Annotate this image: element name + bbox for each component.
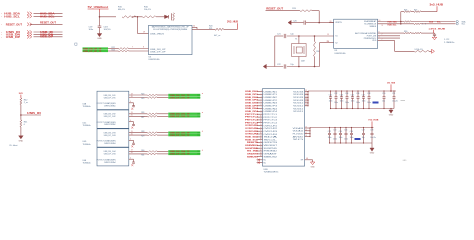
svg-text:R24: R24 bbox=[141, 93, 144, 95]
net flag USB_DN bbox=[1, 33, 63, 37]
node HUB_SCL bbox=[245, 139, 259, 141]
wire DP row bbox=[108, 48, 119, 54]
wire VBUS to U5A pin19 bbox=[138, 17, 149, 34]
capacitor C54 bbox=[339, 127, 343, 144]
svg-text:VDD11: VDD11 bbox=[293, 105, 303, 107]
wire DP ch1 bbox=[129, 96, 148, 98]
svg-text:5V_USBhost: 5V_USBhost bbox=[88, 5, 109, 9]
wire U5C pin L11 bbox=[257, 118, 263, 120]
svg-text:USB_DN_CH2: USB_DN_CH2 bbox=[104, 114, 116, 116]
svg-text:SDA: SDA bbox=[429, 20, 434, 23]
node USB_DP_CH1 green label bbox=[168, 96, 200, 99]
svg-text:U5: U5 bbox=[335, 50, 339, 52]
wire SCL row bbox=[378, 24, 414, 27]
capacitor C44 bbox=[345, 90, 349, 109]
svg-text:16V,5%: 16V,5% bbox=[104, 29, 111, 31]
svg-text:HUB_SDA: HUB_SDA bbox=[40, 12, 55, 15]
svg-text:5V0: 5V0 bbox=[19, 93, 24, 95]
node USB_DN_CH1 green label bbox=[168, 94, 200, 97]
svg-text:TP4: TP4 bbox=[197, 116, 200, 118]
svg-text:10u,25v: 10u,25v bbox=[392, 101, 398, 103]
resistor R24 bbox=[141, 93, 168, 95]
reference U4D text bbox=[83, 141, 91, 146]
svg-text:R30: R30 bbox=[141, 150, 144, 152]
svg-text:1V2_HUB: 1V2_HUB bbox=[368, 120, 379, 122]
wire cfg row4 bbox=[378, 39, 414, 52]
wire PORTCTL ch2 bbox=[129, 120, 135, 126]
svg-text:2_nc: 2_nc bbox=[24, 102, 28, 104]
reference U4E text bbox=[83, 160, 91, 165]
svg-text:TUSB04x: TUSB04x bbox=[83, 125, 91, 127]
node PRTCTL2 bbox=[245, 117, 259, 119]
wire U5C pin L4 bbox=[257, 99, 263, 101]
svg-text:R22: R22 bbox=[112, 47, 115, 49]
op-amp U4D port block 3 bbox=[97, 129, 129, 147]
capacitor C20 bbox=[293, 21, 319, 25]
resistor R22 bbox=[112, 47, 129, 49]
wire U5C pin L23 bbox=[257, 152, 263, 154]
svg-text:USBDN3: USBDN3 bbox=[264, 103, 278, 105]
svg-text:USB_DP3: USB_DP3 bbox=[245, 105, 259, 107]
wire U5C pin L21 bbox=[257, 147, 263, 149]
svg-text:U5: U5 bbox=[149, 57, 153, 59]
wire U5C pin L3 bbox=[257, 96, 263, 98]
svg-text:+: + bbox=[202, 149, 204, 151]
wire U5C pin L14 bbox=[257, 127, 263, 129]
node HS_IND bbox=[247, 151, 259, 153]
svg-text:3V3_HUB: 3V3_HUB bbox=[387, 83, 395, 85]
svg-text:USB_DP_CH4: USB_DP_CH4 bbox=[104, 154, 116, 156]
svg-text:4: 4 bbox=[130, 158, 131, 160]
svg-text:3V3_HUB: 3V3_HUB bbox=[227, 20, 238, 23]
wire PORTCTL ch1 bbox=[129, 101, 135, 107]
svg-text:USB_DP: USB_DP bbox=[40, 36, 53, 39]
wire U5C pin L8 bbox=[257, 110, 263, 112]
svg-text:R26: R26 bbox=[141, 112, 144, 114]
svg-text:FULL/PWRSW(S)+PWRSW(S)/SMBH: FULL/PWRSW(S)+PWRSW(S)/SMBH bbox=[153, 29, 188, 31]
svg-text:R27: R27 bbox=[141, 117, 144, 119]
svg-text:24M: 24M bbox=[301, 61, 305, 63]
svg-text:USB_DN1: USB_DN1 bbox=[245, 91, 259, 93]
svg-text:PRTCTL1: PRTCTL1 bbox=[245, 114, 259, 116]
svg-text:USB2514Bi: USB2514Bi bbox=[149, 59, 160, 61]
capacitor C46 bbox=[356, 90, 360, 109]
svg-text:4: 4 bbox=[130, 139, 131, 141]
net flag USB_ID bbox=[1, 30, 63, 34]
wire U5C pin L17 bbox=[257, 135, 263, 137]
svg-text:USBDP4: USBDP4 bbox=[264, 111, 278, 113]
svg-text:7: 7 bbox=[382, 34, 383, 36]
net label USB_ID stub bbox=[27, 113, 42, 115]
svg-text:R29: R29 bbox=[141, 136, 144, 138]
svg-text:SMBUS: SMBUS bbox=[369, 26, 376, 28]
wire U5C pin L2 bbox=[257, 93, 263, 95]
ferrite L2 bbox=[171, 13, 174, 21]
svg-text:PRTCTL1: PRTCTL1 bbox=[264, 114, 278, 116]
svg-text:4: 4 bbox=[130, 101, 131, 103]
svg-text:PRTCTL4: PRTCTL4 bbox=[264, 122, 278, 124]
wire U5C pin L15 bbox=[257, 130, 263, 132]
wire U5C pin L19 bbox=[257, 141, 263, 143]
svg-text:USB_ID: USB_ID bbox=[27, 113, 42, 115]
wire divider mid bbox=[20, 105, 41, 120]
wire U5C pin L10 bbox=[257, 116, 263, 118]
capacitor C51 bbox=[392, 90, 398, 108]
svg-text:16: 16 bbox=[260, 133, 262, 135]
wire PORTCTL ch4 bbox=[129, 158, 135, 164]
svg-text:GND: GND bbox=[389, 115, 394, 117]
svg-text:▪: ▪ bbox=[1, 16, 2, 18]
svg-text:C22: C22 bbox=[277, 64, 282, 66]
svg-text:GND: GND bbox=[370, 153, 375, 155]
node HUB_SDA bbox=[245, 136, 259, 139]
resistor R27 bbox=[141, 115, 168, 119]
svg-text:GRANTX: GRANTX bbox=[247, 153, 259, 156]
svg-text:PRTCTL3: PRTCTL3 bbox=[245, 120, 259, 122]
svg-text:U4B: U4B bbox=[83, 104, 87, 106]
node USB_DP_CH2 green label bbox=[168, 115, 200, 118]
wire U5C pin L16 bbox=[257, 133, 263, 135]
resistor R15 bbox=[118, 7, 136, 18]
wire cfg row3 bbox=[378, 36, 400, 38]
svg-text:36: 36 bbox=[305, 99, 307, 101]
svg-text:USB_DP_CH2: USB_DP_CH2 bbox=[104, 116, 116, 118]
node USB_DN4 bbox=[245, 107, 259, 110]
wire cfg row1 bbox=[378, 31, 404, 33]
wire SCL cont bbox=[421, 21, 456, 27]
svg-text:48: 48 bbox=[306, 158, 308, 160]
svg-text:3: 3 bbox=[379, 36, 380, 38]
svg-text:AVDD: AVDD bbox=[293, 135, 305, 138]
svg-text:TUSB04x: TUSB04x bbox=[83, 106, 91, 108]
svg-text:20: 20 bbox=[260, 144, 262, 146]
svg-text:ID: Host: ID: Host bbox=[10, 144, 18, 147]
resistor R30 bbox=[404, 31, 414, 34]
svg-text:TUSB04x: TUSB04x bbox=[83, 144, 91, 146]
svg-text:PRTCTL2: PRTCTL2 bbox=[264, 117, 278, 119]
svg-text:VBUSDET: VBUSDET bbox=[264, 145, 279, 147]
svg-text:16: 16 bbox=[305, 135, 307, 137]
svg-text:1: I2C: 1: I2C bbox=[444, 39, 450, 41]
capacitor C43 bbox=[340, 90, 344, 109]
capacitor C23 bbox=[433, 33, 436, 37]
op-amp U5C hub main box bbox=[263, 89, 305, 167]
reference U4B text bbox=[83, 104, 91, 109]
svg-text:USB_DP_CH1_TP: USB_DP_CH1_TP bbox=[170, 97, 191, 99]
svg-text:VDD11: VDD11 bbox=[293, 103, 303, 105]
resistor R26 bbox=[404, 9, 411, 12]
svg-text:PORTCTL/UBAT(S)/EN: PORTCTL/UBAT(S)/EN bbox=[97, 158, 117, 161]
wire U5C pin L1 bbox=[257, 90, 263, 92]
capacitor C57 bbox=[362, 127, 365, 144]
svg-text:x3V3_HUB: x3V3_HUB bbox=[429, 28, 446, 30]
node USB_DP_CH3 green label bbox=[168, 134, 200, 137]
svg-text:38: 38 bbox=[305, 104, 307, 106]
svg-text:TUSB8041RGC: TUSB8041RGC bbox=[264, 172, 279, 174]
capacitor C19 bbox=[89, 17, 111, 34]
svg-text:C0G: C0G bbox=[104, 27, 109, 29]
svg-text:R28: R28 bbox=[141, 131, 144, 133]
svg-text:2: 2 bbox=[382, 39, 383, 41]
svg-text:R18: R18 bbox=[316, 51, 319, 53]
svg-text:14: 14 bbox=[305, 129, 307, 131]
svg-text:0: 0 bbox=[24, 124, 26, 126]
wire cfg row2 bbox=[378, 34, 400, 36]
svg-text:23: 23 bbox=[260, 152, 262, 154]
wire pullup rail bbox=[400, 12, 404, 25]
capacitor C55 bbox=[344, 127, 348, 144]
svg-text:R41: R41 bbox=[24, 121, 29, 123]
svg-text:SUSPIND: SUSPIND bbox=[245, 148, 259, 150]
svg-text:17: 17 bbox=[260, 135, 262, 137]
svg-text:U4E: U4E bbox=[83, 160, 87, 162]
svg-text:USB_DP: USB_DP bbox=[6, 36, 21, 39]
svg-text:3v3_HUB: 3v3_HUB bbox=[430, 3, 444, 6]
wire PORTCTL ch3 bbox=[129, 139, 135, 145]
svg-text:GND: GND bbox=[311, 166, 316, 168]
svg-text:10p: 10p bbox=[382, 101, 385, 103]
svg-text:RESET_OUT: RESET_OUT bbox=[6, 23, 23, 26]
wire U5C pin L9 bbox=[257, 113, 263, 115]
svg-text:VDD33: VDD33 bbox=[293, 100, 303, 102]
svg-text:R20: R20 bbox=[209, 26, 212, 28]
svg-text:PRTCTL4: PRTCTL4 bbox=[245, 121, 259, 124]
power flag 5V_USB bbox=[88, 5, 109, 12]
svg-text:10u,25v: 10u,25v bbox=[370, 137, 376, 139]
svg-text:OVRCUR1: OVRCUR1 bbox=[264, 125, 278, 127]
svg-text:24: 24 bbox=[260, 155, 262, 157]
power flag 3v3_HUB pullups bbox=[430, 3, 444, 11]
svg-text:Y1: Y1 bbox=[295, 39, 297, 41]
node OVRCUR2 bbox=[245, 128, 259, 130]
capacitor C52 bbox=[328, 127, 332, 144]
svg-text:VDDA11: VDDA11 bbox=[293, 130, 304, 133]
svg-text:NC: NC bbox=[264, 162, 267, 164]
svg-text:USB_DP_UP_TP: USB_DP_UP_TP bbox=[83, 51, 102, 53]
svg-text:TUSB04x: TUSB04x bbox=[83, 163, 91, 165]
svg-text:R23: R23 bbox=[112, 50, 115, 52]
svg-text:OVRCUR1: OVRCUR1 bbox=[245, 125, 259, 127]
node USB_DP_CH4 green label bbox=[168, 153, 200, 156]
svg-text:USBDP1: USBDP1 bbox=[264, 94, 278, 96]
wire U5C pin L7 bbox=[257, 107, 263, 109]
svg-text:PRTCTL3: PRTCTL3 bbox=[264, 120, 278, 122]
ground GND crystal bbox=[263, 64, 266, 68]
svg-text:PWRDN2/SCL: PWRDN2/SCL bbox=[364, 38, 376, 40]
svg-text:▪: ▪ bbox=[1, 34, 2, 36]
svg-text:68k,1%: 68k,1% bbox=[118, 9, 125, 11]
op-amp U5A hub upstream box bbox=[149, 25, 193, 54]
node USB_DP4 bbox=[245, 110, 259, 113]
svg-text:22: 22 bbox=[260, 150, 262, 152]
svg-text:2: SMBUSx: 2: SMBUSx bbox=[444, 42, 454, 44]
node USB_DP_UP green label bbox=[83, 50, 109, 53]
ground GND C20 bbox=[288, 20, 297, 24]
wire U5C pin L18 bbox=[257, 138, 263, 140]
svg-text:USB_DP2: USB_DP2 bbox=[245, 100, 259, 102]
pin mark OVERCUR ch3 bbox=[131, 145, 133, 147]
wire to D4 bbox=[156, 14, 165, 20]
wire DP ch2 bbox=[129, 115, 148, 117]
svg-text:HUB_SCL: HUB_SCL bbox=[40, 15, 55, 18]
reference U4C text bbox=[83, 122, 91, 127]
resistor R31 bbox=[414, 32, 435, 34]
wire DN ch2 bbox=[129, 112, 148, 114]
svg-text:▪: ▪ bbox=[1, 32, 2, 34]
wire divider bottom bbox=[18, 127, 24, 136]
wire DP to box bbox=[129, 47, 149, 51]
wire U5C NC pin 1 bbox=[257, 159, 267, 162]
wire U5C pin L20 bbox=[257, 144, 263, 146]
diode D4 bbox=[165, 15, 169, 19]
net flag RESET_OUT bbox=[1, 22, 63, 27]
svg-text:GRANT: GRANT bbox=[264, 153, 279, 156]
svg-text:100n: 100n bbox=[89, 29, 94, 31]
svg-text:VDD33: VDD33 bbox=[293, 97, 303, 99]
svg-text:R25: R25 bbox=[141, 98, 144, 100]
svg-text:10p: 10p bbox=[362, 137, 365, 139]
svg-text:USBDN2: USBDN2 bbox=[264, 97, 278, 99]
svg-text:PRTCTL2: PRTCTL2 bbox=[245, 117, 259, 119]
svg-text:RESET_OUT: RESET_OUT bbox=[40, 22, 56, 25]
svg-text:10k,1%: 10k,1% bbox=[144, 9, 151, 11]
svg-text:SDA: SDA bbox=[264, 136, 280, 139]
svg-text:C21: C21 bbox=[277, 34, 282, 36]
value 10u blob bank1 bbox=[373, 102, 379, 104]
capacitor C42 bbox=[334, 90, 338, 109]
resistor R29 bbox=[141, 134, 168, 137]
svg-text:SCL: SCL bbox=[462, 24, 466, 26]
svg-text:▪: ▪ bbox=[1, 13, 2, 15]
ground GND EP bbox=[310, 162, 315, 168]
resistor R18 bbox=[314, 35, 320, 67]
net flag HUB_SDA bbox=[1, 12, 63, 16]
svg-text:AUTODNGA SUSPND: AUTODNGA SUSPND bbox=[355, 32, 377, 35]
svg-text:XO: XO bbox=[293, 139, 306, 141]
node USB_DN2 bbox=[245, 97, 259, 99]
capacitor C50 bbox=[382, 90, 385, 109]
svg-text:26: 26 bbox=[330, 21, 332, 23]
svg-text:USB_DN_UP: USB_DN_UP bbox=[150, 49, 166, 51]
svg-text:12: 12 bbox=[260, 121, 262, 123]
capacitor C53 bbox=[333, 127, 337, 144]
wire reset to U5B pin bbox=[318, 11, 333, 24]
power flag 3V3_HUB at R20 bbox=[227, 20, 238, 29]
node GRANTX bbox=[247, 153, 259, 156]
svg-text:10: 10 bbox=[379, 20, 381, 22]
svg-text:R42: R42 bbox=[24, 99, 29, 101]
svg-text:R19: R19 bbox=[292, 8, 297, 10]
wire XTAL2 to box bbox=[320, 41, 334, 67]
power flag 3V3_HUB cfg bbox=[429, 28, 446, 33]
svg-text:10: 10 bbox=[260, 116, 262, 118]
capacitor C58 bbox=[370, 128, 376, 144]
svg-text:+: + bbox=[202, 93, 204, 95]
node SUSPIND bbox=[245, 148, 259, 150]
wire SDA row bbox=[378, 20, 404, 24]
ground GND divider bbox=[19, 136, 24, 143]
svg-text:VDD33: VDD33 bbox=[293, 94, 303, 96]
svg-text:8: 8 bbox=[143, 47, 144, 49]
svg-text:USB_DP_CH3: USB_DP_CH3 bbox=[104, 135, 116, 137]
svg-text:GND: GND bbox=[97, 38, 102, 40]
svg-text:BAV99S/SM04C+BAV99S/SM04C/HS_U: BAV99S/SM04C+BAV99S/SM04C/HS_UP bbox=[152, 26, 190, 29]
svg-text:USBDN4: USBDN4 bbox=[264, 108, 278, 110]
svg-text:19: 19 bbox=[131, 112, 133, 114]
wire U5C pin L24 bbox=[257, 155, 263, 157]
node OVRCUR1 bbox=[245, 125, 259, 127]
svg-text:VDDA33: VDDA33 bbox=[293, 127, 304, 130]
svg-text:HS_IND: HS_IND bbox=[247, 151, 259, 153]
svg-text:R15: R15 bbox=[118, 7, 123, 9]
svg-text:TP6: TP6 bbox=[197, 135, 200, 137]
svg-text:SDA/SMBDAT: SDA/SMBDAT bbox=[364, 20, 377, 23]
svg-text:USB_DP_CH3_TP: USB_DP_CH3_TP bbox=[170, 135, 191, 137]
svg-text:OVRCUR4: OVRCUR4 bbox=[245, 133, 259, 136]
crystal Y1 bbox=[292, 35, 307, 67]
svg-text:15: 15 bbox=[327, 34, 329, 36]
resistor R42 bbox=[20, 98, 28, 105]
pin mark OVERCUR ch2 bbox=[131, 127, 133, 129]
svg-text:NC: NC bbox=[264, 160, 267, 162]
svg-text:TP8: TP8 bbox=[197, 154, 200, 156]
svg-text:13: 13 bbox=[260, 124, 262, 126]
wire 5V rail bbox=[99, 12, 116, 18]
node USB_DN1 bbox=[245, 91, 259, 93]
svg-text:16: 16 bbox=[327, 41, 329, 43]
op-amp U4B port block 1 bbox=[97, 91, 129, 109]
wire DN row bbox=[108, 46, 119, 52]
wire bank2 bottom rail bbox=[330, 143, 373, 148]
resistor R26 bbox=[141, 112, 168, 114]
svg-text:USB_VBUS: USB_VBUS bbox=[150, 33, 165, 35]
wire U5C pin L22 bbox=[257, 150, 263, 152]
svg-text:USBDP2: USBDP2 bbox=[264, 100, 278, 102]
value 10u blob bank2 bbox=[355, 138, 361, 140]
wire DP ch3 bbox=[129, 133, 148, 135]
node SMBUSX bbox=[247, 156, 259, 158]
svg-text:GND: GND bbox=[403, 160, 408, 162]
ground GND C19 bbox=[97, 34, 102, 41]
node OVRCUR4 bbox=[245, 133, 259, 136]
svg-text:USB_DN_CH3: USB_DN_CH3 bbox=[104, 132, 116, 134]
svg-text:C19: C19 bbox=[89, 27, 94, 29]
node USB_DN_CH2 green label bbox=[168, 113, 200, 116]
node PRTCTL4 bbox=[245, 121, 259, 124]
svg-text:PORTCTL/UBAT(S)/EN: PORTCTL/UBAT(S)/EN bbox=[97, 140, 117, 143]
svg-text:+: + bbox=[202, 131, 204, 133]
power flag 5V0 bbox=[19, 93, 24, 98]
svg-text:USB_DP_CH1: USB_DP_CH1 bbox=[104, 97, 116, 99]
svg-text:U4D: U4D bbox=[83, 141, 87, 143]
stray mark 1 bbox=[401, 98, 406, 103]
wire gnd rail crystal bbox=[272, 36, 278, 67]
svg-text:USB_DP_UP: USB_DP_UP bbox=[150, 52, 166, 54]
capacitor C47 bbox=[362, 90, 366, 109]
svg-text:OVRCUR4: OVRCUR4 bbox=[264, 134, 278, 136]
svg-text:SUSPND: SUSPND bbox=[264, 148, 279, 150]
reference U5C text bbox=[264, 169, 279, 174]
svg-text:54: 54 bbox=[193, 26, 195, 28]
svg-text:35: 35 bbox=[305, 96, 307, 98]
svg-text:SMBUSX: SMBUSX bbox=[247, 156, 259, 158]
svg-text:19: 19 bbox=[131, 150, 133, 152]
node USB_DN_CH3 green label bbox=[168, 132, 200, 135]
svg-text:19: 19 bbox=[131, 93, 133, 95]
svg-text:USB_DN4: USB_DN4 bbox=[245, 107, 259, 110]
svg-text:20: 20 bbox=[131, 96, 133, 98]
ground GND R32 bbox=[432, 49, 435, 53]
